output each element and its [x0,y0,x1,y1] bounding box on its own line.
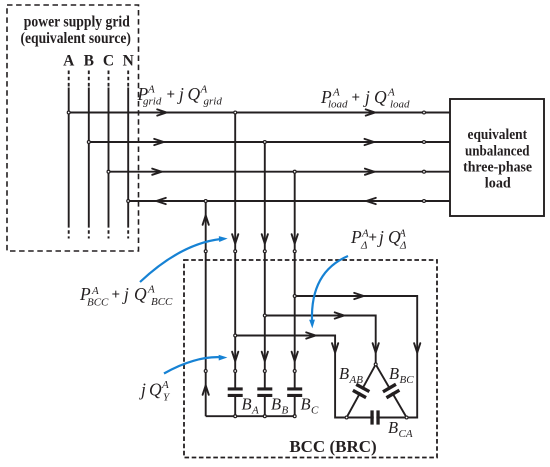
power supply grid dashed box [7,5,139,251]
svg-text:Q: Q [188,84,201,104]
label: jQ_Y [139,379,171,404]
node: A above cap [234,370,237,373]
svg-text:j: j [363,87,370,107]
label: B_B [271,395,289,417]
wire: delta bottom side [347,417,407,419]
wire: phase A bus [69,112,450,114]
arrowhead: B drop down [262,234,268,243]
arrowhead: C bus load side [365,169,374,175]
arrowhead: B branch right [335,312,344,318]
capacitor B_A [228,387,243,397]
wire: Y bottom wire to neutral [206,415,295,417]
junction: N bus at load [423,200,426,203]
junction: Y bottom A [234,415,237,418]
arrowhead: C drop down [292,234,298,243]
arrowhead: B drop down above cap [262,352,268,361]
svg-text:j: j [177,84,184,104]
label: B_BC [389,364,414,386]
wire: B branch to delta apex [265,316,376,365]
svg-text:C: C [103,52,114,69]
label: P_load + jQ_load [320,87,410,111]
wire: C branch to delta right vertex [295,296,418,418]
svg-text:A: A [161,379,169,391]
blue arrow: P_BCC pointer [140,236,228,282]
node: N drop above BCC [204,250,207,253]
arrowhead: A drop down above cap [232,352,238,361]
junction: C bus at load [423,170,426,173]
wire: phase B source vertical [88,71,90,239]
arrowhead: C drop down above cap [292,352,298,361]
svg-text:C: C [311,405,319,417]
node: A drop above BCC [234,250,237,253]
wire: neutral N bus [128,200,450,202]
equivalent unbalanced three-phase load box [450,99,544,216]
svg-text:A: A [147,84,155,96]
svg-text:B: B [301,395,311,414]
label: B_A [242,395,260,417]
arrowhead: N up above bottom wire [203,385,209,394]
svg-text:load: load [485,176,511,192]
wire: phase A drop from A bus to BCC [234,113,236,417]
svg-text:BCC: BCC [87,297,109,309]
wire: neutral N source vertical [127,71,129,239]
svg-text:B: B [84,52,94,69]
svg-text:+: + [352,90,361,106]
wire: delta right leg [376,364,407,417]
junction: N bus at source [127,200,130,203]
junction: B bus at load [423,141,426,144]
svg-text:A: A [251,405,259,417]
svg-text:Q: Q [374,87,387,107]
svg-text:unbalanced: unbalanced [465,144,530,160]
svg-text:BC: BC [400,374,415,386]
svg-text:A: A [332,87,340,99]
arrowhead: A drop down [232,234,238,243]
arrowhead: C bus grid side [152,169,161,175]
label: B_C [301,395,320,417]
junction: N bus tap [204,200,207,203]
junction: A bus at load [423,111,426,114]
svg-text:B: B [389,364,399,383]
BCC dashed box [184,260,437,458]
svg-text:CA: CA [399,428,413,440]
svg-text:grid: grid [204,96,223,108]
svg-text:B: B [242,395,252,414]
svg-text:load: load [390,99,410,111]
svg-text:+: + [112,287,121,303]
blue arrow: P_delta pointer [309,256,348,329]
arrowhead: C branch right [354,293,363,299]
label: P_delta + jQ_delta [350,227,406,252]
svg-text:j: j [139,380,146,400]
wire: phase B bus [89,141,450,143]
node: C drop above BCC [293,250,296,253]
blue arrow: jQ_Y pointer [164,355,227,374]
svg-text:A: A [387,87,395,99]
svg-text:load: load [328,99,348,111]
arrowhead: B bus grid side [154,139,163,145]
svg-text:B: B [271,395,281,414]
junction: B branch [263,314,266,317]
svg-text:AB: AB [349,374,364,386]
capacitor B_C [287,387,302,397]
node: B drop above BCC [263,250,266,253]
capacitor B_B [257,387,272,397]
svg-text:Δ: Δ [360,240,367,252]
node: B above cap [263,370,266,373]
capacitor B_CA [370,410,379,425]
wire: neutral drop from N bus to BCC [205,201,207,416]
svg-text:A: A [200,84,208,96]
label: B_AB [339,364,363,386]
node: delta left vertex [345,416,348,419]
svg-text:BCC (BRC): BCC (BRC) [289,437,376,456]
svg-text:A: A [91,285,99,297]
arrowhead: A bus grid side [157,109,166,115]
junction: Y bottom B [263,415,266,418]
arrowhead: A bus load side [366,109,375,115]
svg-text:+: + [369,230,378,246]
svg-text:N: N [123,52,134,69]
svg-text:Q: Q [149,380,162,400]
arrowhead: N drop up [203,215,209,224]
label: P_grid + jQ_grid [137,84,223,108]
label: equivalent unbalanced three-phase load [463,127,532,192]
svg-text:three-phase: three-phase [463,160,532,176]
arrowhead: delta apex vertical down [373,343,379,352]
svg-text:equivalent: equivalent [468,127,528,143]
wire: phase A source vertical [68,71,70,239]
junction: A bus at source [67,111,70,114]
wire: A branch to delta left vertex [235,336,346,418]
wire: delta left leg [347,364,376,417]
junction: A bus tap [234,111,237,114]
arrowhead: delta right vertical down [414,343,420,352]
svg-text:j: j [122,284,129,304]
svg-text:A: A [147,284,155,296]
capacitor B_AB [352,383,370,399]
wire: phase C drop from C bus to BCC [294,172,296,417]
junction: B bus at source [87,141,90,144]
svg-text:+: + [167,87,176,103]
node: delta right vertex [405,416,408,419]
svg-text:power supply grid: power supply grid [24,14,130,31]
junction: Y bottom C [293,415,296,418]
arrowhead: B bus load side [365,139,374,145]
junction: C branch [293,295,296,298]
junction: A branch [234,334,237,337]
label: B_CA [388,418,413,440]
node: delta apex [374,363,377,366]
svg-text:grid: grid [143,96,162,108]
junction: B bus tap [263,141,266,144]
node: N above cap wire [204,370,207,373]
junction: C bus at source [107,170,110,173]
wire: phase C source vertical [108,71,110,239]
svg-text:Δ: Δ [399,240,406,252]
label: P_BCC + jQ_BCC [79,284,173,309]
svg-text:j: j [377,227,384,247]
arrowhead: N bus grid side (left) [156,198,165,204]
svg-text:B: B [339,364,349,383]
wire: phase C bus [109,171,451,173]
svg-text:B: B [282,405,289,417]
node: C above cap [293,370,296,373]
arrowhead: delta left vertical down [332,343,338,352]
svg-text:A: A [398,228,406,240]
capacitor B_BC [382,383,400,399]
arrowhead: N bus load side (left) [366,198,375,204]
svg-text:B: B [388,418,398,437]
wire: phase B drop from B bus to BCC [264,142,266,416]
svg-text:Q: Q [134,284,147,304]
svg-text:(equivalent source): (equivalent source) [20,30,131,47]
junction: C bus tap [293,170,296,173]
svg-text:BCC: BCC [151,296,173,308]
arrowhead: A branch right [306,332,315,338]
svg-text:A: A [63,52,75,69]
